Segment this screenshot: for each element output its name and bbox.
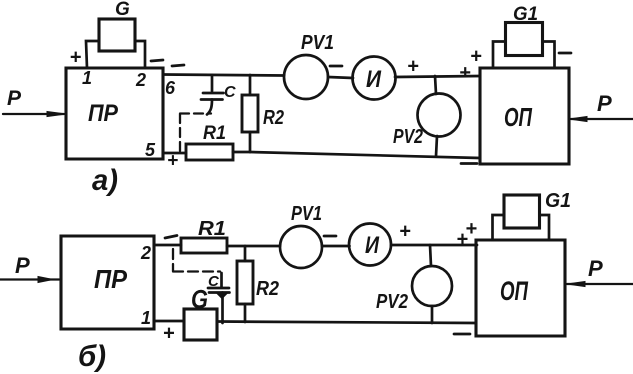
svg-text:P: P xyxy=(15,253,30,278)
svg-text:2: 2 xyxy=(135,70,146,90)
svg-text:ПР: ПР xyxy=(88,100,119,127)
svg-text:И: И xyxy=(366,66,382,93)
svg-text:PV2: PV2 xyxy=(393,126,423,148)
svg-text:PV1: PV1 xyxy=(291,203,322,225)
svg-text:ОП: ОП xyxy=(500,276,528,306)
svg-text:И: И xyxy=(365,232,380,259)
svg-text:PV1: PV1 xyxy=(301,32,334,54)
svg-text:+: + xyxy=(163,323,175,345)
svg-text:+: + xyxy=(456,229,468,251)
svg-text:R1: R1 xyxy=(203,123,226,144)
svg-text:P: P xyxy=(597,91,612,116)
svg-text:PV2: PV2 xyxy=(376,291,408,313)
svg-text:ПР: ПР xyxy=(94,264,128,294)
svg-text:C: C xyxy=(224,84,236,101)
svg-text:1: 1 xyxy=(141,308,151,328)
svg-text:1: 1 xyxy=(82,68,92,88)
svg-text:+: + xyxy=(407,56,419,78)
svg-text:+: + xyxy=(70,47,82,69)
svg-text:G: G xyxy=(115,0,130,20)
svg-text:R2: R2 xyxy=(263,107,284,129)
svg-text:P: P xyxy=(588,256,603,281)
svg-text:C: C xyxy=(208,273,220,290)
svg-text:+: + xyxy=(167,151,178,172)
svg-text:G1: G1 xyxy=(513,4,538,25)
svg-text:а): а) xyxy=(92,164,118,197)
svg-text:+: + xyxy=(459,62,471,84)
svg-text:ОП: ОП xyxy=(504,102,533,132)
svg-text:6: 6 xyxy=(165,78,176,98)
svg-text:+: + xyxy=(470,46,482,68)
svg-text:б): б) xyxy=(78,340,106,373)
svg-text:P: P xyxy=(7,87,22,110)
svg-text:2: 2 xyxy=(140,243,151,263)
svg-text:R2: R2 xyxy=(256,278,279,300)
svg-text:5: 5 xyxy=(145,140,156,160)
svg-text:G: G xyxy=(191,284,208,314)
svg-text:G1: G1 xyxy=(545,190,571,212)
svg-text:+: + xyxy=(399,221,411,243)
svg-text:R1: R1 xyxy=(198,218,226,240)
